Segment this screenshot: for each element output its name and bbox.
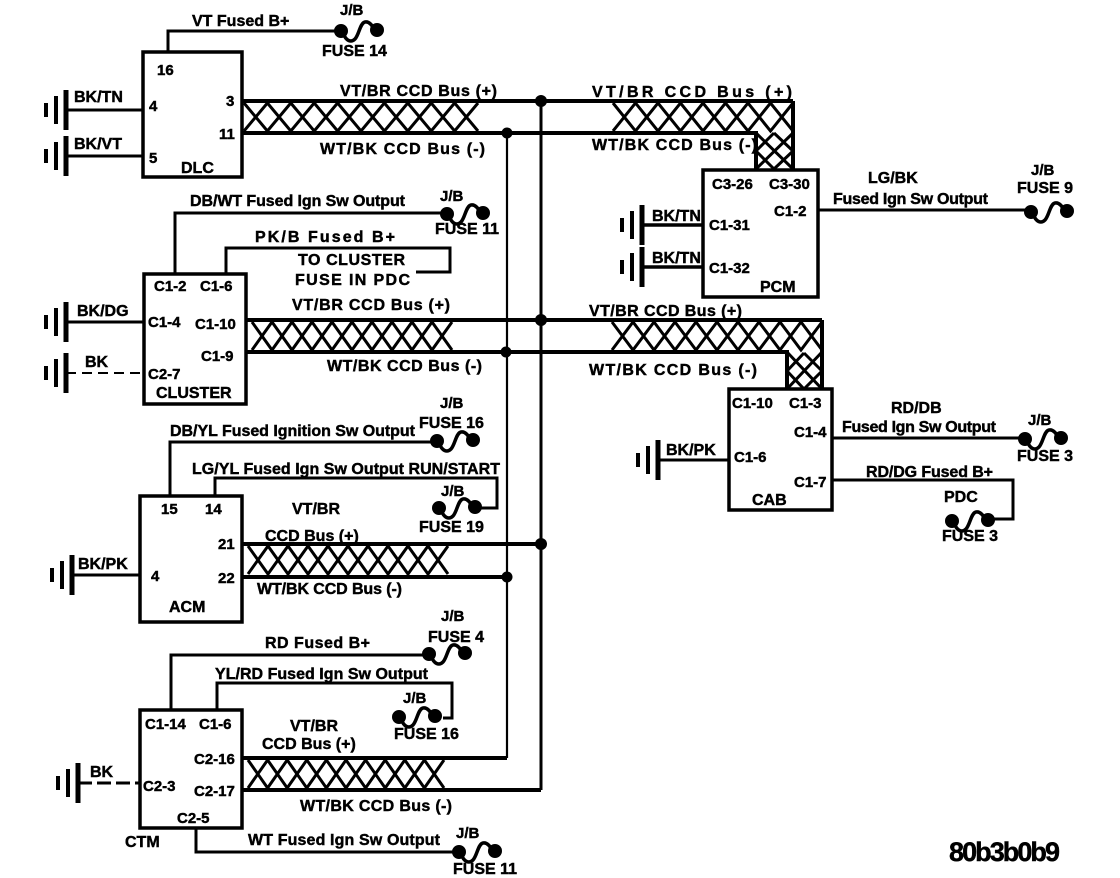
svg-text:4: 4 [151,568,160,585]
connector box CTM [140,710,242,828]
wire WT/BK CCD Bus (-) row 1 [242,131,756,135]
svg-text:J/B: J/B [441,608,465,625]
bus hatch row 2 left [252,322,452,350]
connector box DLC [143,52,242,177]
svg-text:FUSE 16: FUSE 16 [394,726,459,743]
svg-text:5: 5 [149,150,157,167]
svg-text:BK/VT: BK/VT [74,136,122,153]
svg-text:BK/DG: BK/DG [77,303,129,320]
svg-text:BK: BK [90,764,114,781]
svg-text:PCM: PCM [760,279,796,296]
wire RD/DB CAB C1-4 to FUSE 3 [832,437,1022,440]
wire BK/TN ground to PCM C1-32 [642,265,703,269]
wire WT/BK CCD Bus (-) CTM row [242,788,541,792]
svg-text:J/B: J/B [1028,412,1052,429]
wire PK/B CLUSTER C1-6 bracket to PDC [226,248,450,274]
svg-text:Fused Ign Sw Output: Fused Ign Sw Output [833,191,989,208]
svg-text:VT/BR CCD Bus (+): VT/BR CCD Bus (+) [292,297,450,314]
svg-text:C1-4: C1-4 [148,314,181,331]
svg-text:C1-4: C1-4 [794,424,827,441]
svg-text:VT/BR CCD Bus (+): VT/BR CCD Bus (+) [589,303,742,320]
ground G8 (BK/TN at PCM C1-32) [622,247,642,287]
svg-text:C1-10: C1-10 [732,395,773,412]
svg-text:CAB: CAB [752,492,787,509]
svg-text:BK/TN: BK/TN [652,250,701,267]
svg-text:BK/PK: BK/PK [78,556,128,573]
connector box CAB [729,389,832,510]
svg-text:CCD Bus (+): CCD Bus (+) [262,736,356,753]
svg-text:DB/WT Fused Ign Sw Output: DB/WT Fused Ign Sw Output [190,193,406,210]
fuse J/B FUSE 19 [434,499,481,518]
wire LG/BK PCM C1-2 to FUSE 9 [818,209,1028,212]
wire vertical bus VT/BR middle [540,101,543,790]
ground G2 (BK/VT at DLC pin 5) [46,136,66,176]
wire BK/TN ground to DLC pin 4 [66,109,143,112]
bus hatch vertical at CAB [787,352,822,389]
svg-text:VT/BR: VT/BR [292,501,340,518]
ground G4 (BK at CLUSTER C2-7) [46,353,66,393]
bus hatch row 1 left [244,103,478,131]
ground G1 (BK/TN at DLC pin 4) [46,90,66,130]
svg-text:WT/BK CCD Bus (-): WT/BK CCD Bus (-) [589,362,757,379]
fuse PDC FUSE 3 [947,512,994,531]
wire BK/PK ground to CAB C1-6 [658,459,729,462]
svg-text:BK/PK: BK/PK [666,442,716,459]
svg-text:RD/DB: RD/DB [891,400,942,417]
fuse J/B FUSE 11 upper [442,205,489,224]
svg-text:C1-9: C1-9 [201,348,234,365]
svg-text:CLUSTER: CLUSTER [156,385,232,402]
wire BK/TN ground to PCM C1-31 [642,223,703,227]
svg-text:C1-31: C1-31 [709,217,750,234]
svg-text:FUSE 19: FUSE 19 [419,519,484,536]
svg-text:DLC: DLC [181,160,214,177]
svg-text:16: 16 [157,62,174,79]
svg-text:CCD Bus (+): CCD Bus (+) [265,528,359,545]
svg-text:YL/RD Fused Ign Sw Output: YL/RD Fused Ign Sw Output [215,666,429,683]
wire VT/BR CCD Bus (+) CTM row [242,756,507,760]
wire vertical bus WT/BK middle [506,133,508,758]
svg-text:LG/BK: LG/BK [868,170,918,187]
svg-text:C1-2: C1-2 [774,203,807,220]
wire bus vertical drop to PCM C3-30 [791,101,795,169]
wire bus vertical drop to PCM C3-26 [754,131,758,169]
svg-text:C2-3: C2-3 [143,778,176,795]
fuse J/B FUSE 11 bottom [454,843,501,862]
ground G3 (BK/DG at CLUSTER C1-4) [46,302,66,342]
junction dot WT/BK row1 [502,128,513,139]
bus hatch vertical at PCM [756,133,793,169]
svg-text:WT/BK CCD Bus (-): WT/BK CCD Bus (-) [320,141,485,158]
wire RD/DG CAB C1-7 to PDC FUSE 3 [832,480,1013,519]
svg-text:J/B: J/B [440,395,464,412]
svg-text:FUSE 14: FUSE 14 [322,43,387,60]
fuse J/B FUSE 16 lower [394,708,441,727]
svg-text:11: 11 [219,126,235,143]
svg-text:3: 3 [226,93,234,110]
wire BK/DG ground to CLUSTER C1-4 [66,321,144,324]
svg-text:WT/BK CCD Bus (-): WT/BK CCD Bus (-) [327,358,482,375]
fuse J/B FUSE 3 [1020,430,1067,449]
ground G6 (BK at CTM C2-3) [58,763,78,803]
svg-text:FUSE 16: FUSE 16 [419,415,484,432]
svg-text:C1-10: C1-10 [195,316,236,333]
wire bus vertical drop to CAB C1-10 [785,350,789,389]
svg-text:DB/YL Fused Ignition Sw Output: DB/YL Fused Ignition Sw Output [170,423,416,440]
svg-text:FUSE IN PDC: FUSE IN PDC [295,272,410,289]
wire YL/RD CTM C1-6 bracket to FUSE 16 [217,683,452,718]
ground G5 (BK/PK at ACM pin 4) [52,555,72,595]
svg-text:J/B: J/B [403,690,427,707]
wire WT/BK CCD Bus (-) row 2 [246,350,787,354]
svg-text:PK/B Fused B+: PK/B Fused B+ [255,229,395,246]
wire bus vertical drop to CAB C1-3 [820,320,824,389]
svg-text:VT/BR CCD Bus (+): VT/BR CCD Bus (+) [340,83,497,100]
svg-text:BK/TN: BK/TN [74,89,123,106]
svg-text:C1-7: C1-7 [794,474,827,491]
wire WT/BK CCD Bus (-) ACM row [242,575,507,579]
wire BK ground to CTM C2-3 [78,782,140,785]
svg-text:C2-16: C2-16 [194,751,235,768]
wire BK/PK ground to ACM pin 4 [72,574,140,577]
wire DLC pin 16 to FUSE 14 [168,31,336,52]
svg-text:C1-3: C1-3 [789,395,822,412]
svg-text:PDC: PDC [944,489,978,506]
svg-text:VT Fused B+: VT Fused B+ [192,13,289,30]
svg-text:FUSE 4: FUSE 4 [428,629,484,646]
svg-text:C2-5: C2-5 [177,810,210,827]
ground G9 (BK/PK at CAB C1-6) [638,440,658,480]
svg-text:BK: BK [85,354,109,371]
wire DB/YL ACM pin 15 to FUSE 16 [170,442,434,496]
svg-text:J/B: J/B [441,483,465,500]
svg-text:80b3b0b9: 80b3b0b9 [949,837,1060,867]
svg-text:C1-6: C1-6 [199,716,232,733]
connector box PCM [703,170,818,297]
svg-text:ACM: ACM [169,599,205,616]
connector box ACM [140,496,242,622]
svg-text:FUSE 11: FUSE 11 [453,861,517,878]
svg-text:FUSE 9: FUSE 9 [1017,180,1073,197]
svg-text:CTM: CTM [125,834,160,851]
fuse J/B FUSE 14 [336,22,383,41]
svg-text:LG/YL Fused Ign Sw Output RUN/: LG/YL Fused Ign Sw Output RUN/START [192,461,500,478]
wire VT/BR CCD Bus (+) ACM row [242,542,541,546]
svg-text:WT/BK CCD Bus (-): WT/BK CCD Bus (-) [592,137,757,154]
svg-text:C1-6: C1-6 [734,449,767,466]
svg-text:J/B: J/B [1031,162,1055,179]
bus hatch CTM row [248,760,444,788]
wire BK ground to CLUSTER C2-7 dashed [66,372,144,374]
wire RD CTM C1-14 to FUSE 4 [171,655,426,710]
svg-text:RD Fused B+: RD Fused B+ [265,635,370,652]
junction dot WT/BK ACM row [502,572,513,583]
svg-text:C3-26: C3-26 [712,176,753,193]
svg-text:J/B: J/B [340,2,364,19]
svg-text:Fused Ign Sw Output: Fused Ign Sw Output [842,419,997,436]
svg-text:WT/BK CCD Bus (-): WT/BK CCD Bus (-) [300,798,452,815]
svg-text:VT/BR: VT/BR [290,718,338,735]
svg-text:FUSE 11: FUSE 11 [435,221,499,238]
svg-text:J/B: J/B [440,188,464,205]
svg-text:14: 14 [205,501,222,518]
svg-text:FUSE 3: FUSE 3 [1017,448,1073,465]
svg-text:C1-32: C1-32 [709,260,750,277]
svg-text:WT/BK CCD Bus (-): WT/BK CCD Bus (-) [257,581,402,598]
svg-text:C2-7: C2-7 [148,366,181,383]
fuse J/B FUSE 9 [1026,203,1073,222]
svg-text:4: 4 [149,98,158,115]
svg-text:21: 21 [218,536,235,553]
junction dot VT/BR row1 [535,95,547,107]
svg-text:C1-14: C1-14 [145,716,187,733]
ground G7 (BK/TN at PCM C1-31) [622,205,642,245]
svg-text:WT Fused Ign Sw Output: WT Fused Ign Sw Output [248,832,441,849]
svg-text:C1-2: C1-2 [154,278,187,295]
svg-text:RD/DG Fused B+: RD/DG Fused B+ [866,464,993,481]
bus hatch row 2 right [612,322,822,350]
junction dot VT/BR ACM row [535,538,547,550]
svg-text:J/B: J/B [456,825,480,842]
svg-text:15: 15 [161,501,178,518]
connector box CLUSTER [144,274,246,404]
wire BK/VT ground to DLC pin 5 [66,155,143,158]
junction dot WT/BK row2 [501,347,512,358]
svg-text:TO CLUSTER: TO CLUSTER [298,252,405,269]
wire LG/YL ACM pin 14 bracket to FUSE 19 [215,478,497,508]
wire VT/BR CCD Bus (+) row 1 [242,99,793,103]
junction dot VT/BR row2 [535,314,547,326]
wire DB/WT CLUSTER C1-2 to FUSE 11 [175,213,444,274]
svg-text:FUSE 3: FUSE 3 [942,528,998,545]
bus hatch ACM row [248,546,448,574]
fuse J/B FUSE 16 upper [432,432,479,451]
svg-text:C2-17: C2-17 [194,783,235,800]
fuse J/B FUSE 4 [424,645,471,664]
svg-text:BK/TN: BK/TN [652,208,701,225]
bus hatch row 1 right [613,103,793,131]
wire VT/BR CCD Bus (+) row 2 [246,318,822,322]
svg-text:C3-30: C3-30 [769,176,810,193]
svg-text:C1-6: C1-6 [200,278,233,295]
svg-text:22: 22 [218,570,235,587]
wire WT CTM C2-5 to FUSE 11 bottom [196,828,456,852]
